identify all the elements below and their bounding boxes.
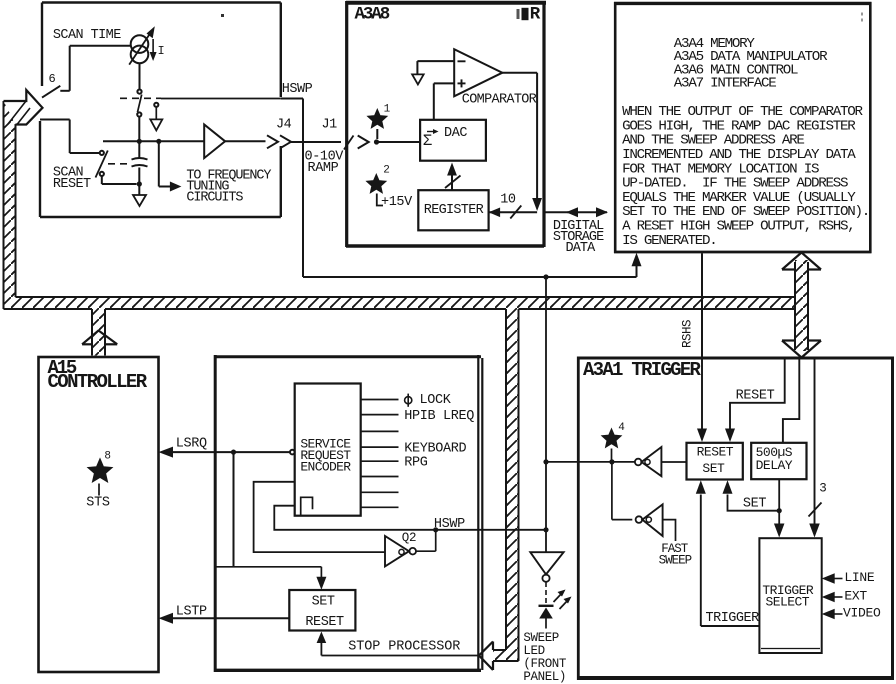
svg-text:RESET: RESET — [53, 177, 91, 192]
svg-text:ENCODER: ENCODER — [300, 459, 351, 474]
svg-text:SET: SET — [702, 461, 725, 476]
svg-text:A3A1 TRIGGER: A3A1 TRIGGER — [583, 359, 702, 381]
svg-text:Q2: Q2 — [402, 531, 416, 545]
svg-text:I: I — [158, 44, 165, 58]
svg-text:DELAY: DELAY — [756, 458, 793, 473]
svg-text:(FRONT: (FRONT — [523, 657, 567, 671]
svg-text:HSWP: HSWP — [434, 517, 465, 532]
svg-text:EXT: EXT — [844, 589, 867, 604]
svg-text:RESET: RESET — [736, 388, 775, 403]
svg-text:RPG: RPG — [404, 456, 428, 471]
svg-text:10: 10 — [500, 192, 516, 207]
svg-text:CIRCUITS: CIRCUITS — [186, 191, 243, 206]
svg-text:LSTP: LSTP — [176, 604, 207, 619]
svg-text:6: 6 — [49, 72, 56, 86]
svg-text:DAC: DAC — [444, 126, 467, 141]
svg-text:PANEL): PANEL) — [523, 670, 566, 684]
svg-text:LED: LED — [523, 644, 544, 658]
svg-text:KEYBOARD: KEYBOARD — [404, 442, 466, 457]
svg-text:J4: J4 — [276, 117, 292, 132]
svg-text:SWEEP: SWEEP — [523, 631, 559, 645]
svg-text:DATA: DATA — [566, 241, 597, 256]
svg-text:4: 4 — [618, 422, 625, 434]
svg-text:R: R — [530, 4, 541, 24]
svg-text:SET: SET — [743, 496, 767, 511]
svg-text:2: 2 — [383, 164, 390, 176]
svg-text:COMPARATOR: COMPARATOR — [462, 93, 537, 108]
svg-text:A3A8: A3A8 — [355, 5, 390, 25]
svg-text:+15V: +15V — [381, 195, 413, 210]
svg-text:IS GENERATED.: IS GENERATED. — [622, 233, 716, 249]
svg-text:1: 1 — [384, 103, 391, 115]
svg-text:RAMP: RAMP — [308, 161, 339, 176]
svg-text:TRIGGER: TRIGGER — [706, 611, 760, 626]
svg-text:HPIB LREQ: HPIB LREQ — [404, 409, 474, 424]
svg-text:A3A7 INTERFACE: A3A7 INTERFACE — [674, 76, 776, 92]
svg-text:VIDEO: VIDEO — [843, 606, 881, 621]
svg-text:3: 3 — [819, 482, 827, 496]
svg-text:SCAN TIME: SCAN TIME — [53, 28, 121, 43]
svg-text:CONTROLLER: CONTROLLER — [48, 371, 148, 393]
svg-text:LINE: LINE — [844, 570, 875, 585]
svg-text:SET: SET — [312, 595, 335, 610]
svg-text:STS: STS — [86, 496, 110, 511]
svg-text:RSHS: RSHS — [681, 320, 695, 348]
svg-text:LOCK: LOCK — [420, 393, 452, 408]
svg-text:HSWP: HSWP — [282, 82, 313, 97]
svg-text:STOP PROCESSOR: STOP PROCESSOR — [348, 640, 460, 655]
svg-text:REGISTER: REGISTER — [424, 203, 484, 218]
svg-text:RESET: RESET — [305, 615, 344, 630]
svg-text:8: 8 — [104, 451, 111, 463]
svg-text:Σ: Σ — [423, 132, 432, 150]
svg-text:SWEEP: SWEEP — [659, 554, 692, 568]
svg-text:SELECT: SELECT — [766, 595, 810, 610]
svg-text:J1: J1 — [322, 117, 338, 132]
svg-text:RESET: RESET — [697, 444, 734, 459]
svg-text:LSRQ: LSRQ — [176, 436, 207, 451]
